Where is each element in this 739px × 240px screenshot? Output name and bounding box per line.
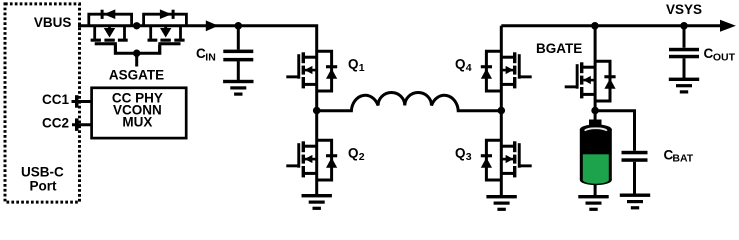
svg-text:OUT: OUT (713, 51, 736, 63)
svg-text:MUX: MUX (122, 114, 152, 129)
svg-text:2: 2 (359, 151, 365, 163)
svg-text:IN: IN (205, 51, 216, 63)
svg-text:3: 3 (466, 151, 472, 163)
svg-text:Q: Q (348, 57, 359, 72)
svg-text:Q: Q (348, 146, 359, 161)
svg-text:ASGATE: ASGATE (109, 68, 164, 83)
svg-text:Q: Q (455, 146, 466, 161)
svg-text:CC1: CC1 (42, 92, 69, 107)
svg-text:VBUS: VBUS (34, 15, 72, 30)
svg-text:USB-C: USB-C (21, 164, 64, 179)
svg-text:Q: Q (455, 57, 466, 72)
svg-text:VSYS: VSYS (666, 2, 702, 17)
svg-text:4: 4 (466, 62, 472, 74)
svg-text:CC2: CC2 (42, 116, 69, 131)
svg-text:1: 1 (359, 62, 365, 74)
svg-text:Port: Port (30, 178, 58, 193)
svg-text:BGATE: BGATE (536, 41, 582, 56)
svg-text:BAT: BAT (672, 153, 693, 165)
